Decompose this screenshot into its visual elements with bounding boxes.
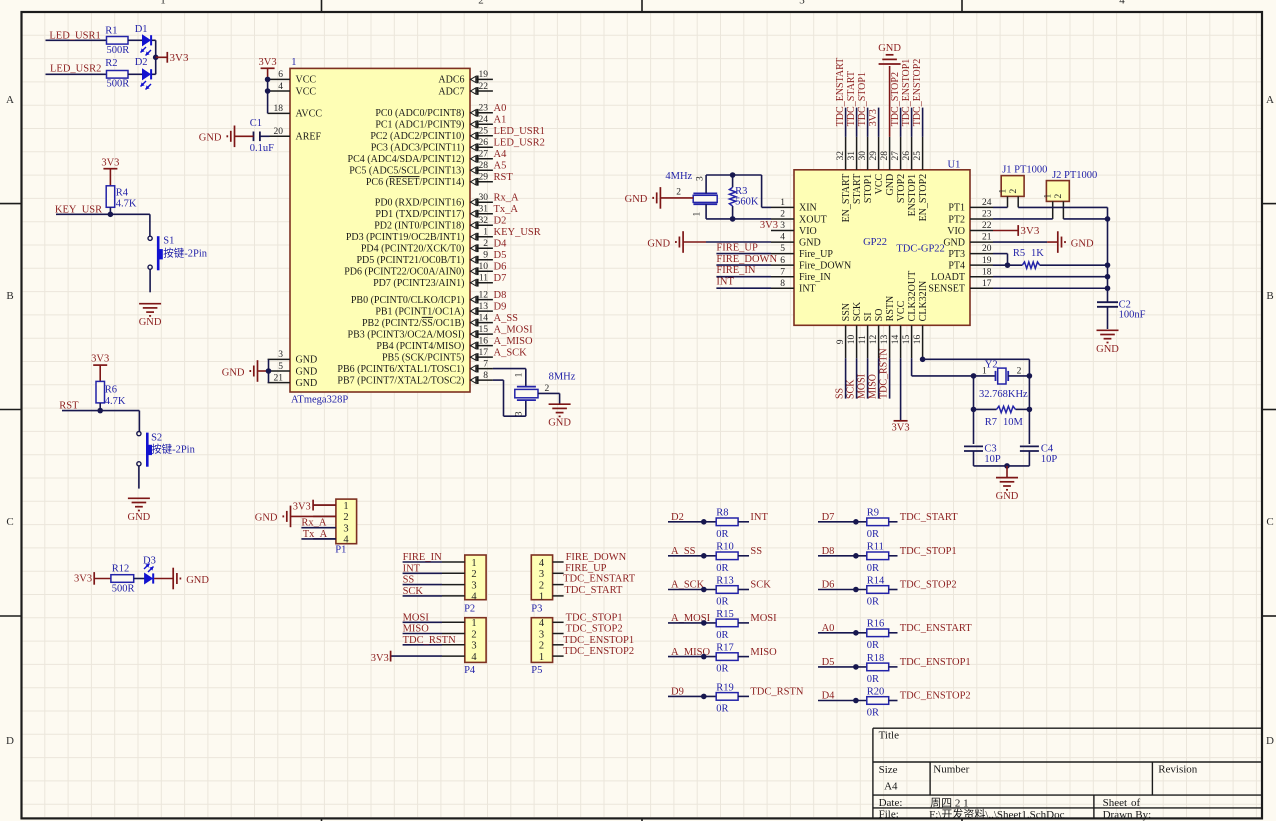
wire XTAL2 [493,379,504,381]
svg-text:3V3: 3V3 [293,502,311,513]
svg-text:14: 14 [891,335,901,345]
svg-text:500R: 500R [112,584,135,595]
svg-text:3: 3 [696,176,706,181]
svg-text:PC0 (ADC0/PCINT8): PC0 (ADC0/PCINT8) [375,108,464,119]
svg-text:PD4 (PCINT20/XCK/T0): PD4 (PCINT20/XCK/T0) [361,244,465,255]
wire Y2 right [1008,375,1029,377]
svg-text:FIRE_UP: FIRE_UP [565,563,607,574]
svg-text:P4: P4 [464,665,476,676]
svg-text:SCK: SCK [750,580,771,591]
ground GND at ATmega [250,360,257,382]
svg-text:GND: GND [625,194,648,205]
wire left bus Y2 [973,376,975,444]
wire CLK32IN [922,358,924,359]
wire LOADT to bus [993,276,1108,278]
svg-text:KEY_USR: KEY_USR [494,227,541,238]
svg-text:4.7K: 4.7K [116,198,137,209]
svg-text:LED_USR1: LED_USR1 [49,30,100,41]
svg-text:PB5 (SCK/PCINT5): PB5 (SCK/PCINT5) [382,352,465,363]
wire Rx_A P1 [301,527,336,529]
svg-text:4: 4 [278,82,283,92]
svg-text:PC1 (ADC1/PCINT9): PC1 (ADC1/PCINT9) [375,120,464,131]
svg-text:0R: 0R [867,529,879,540]
svg-text:Fire_IN: Fire_IN [799,272,831,283]
svg-text:TDC_ENSTART: TDC_ENSTART [835,58,846,127]
power 3V3 at R6 [93,364,107,366]
svg-text:PC6 (RESET/PCINT14): PC6 (RESET/PCINT14) [366,177,465,188]
svg-text:27: 27 [891,151,901,161]
svg-text:Size: Size [879,764,898,776]
wire C2 to GND [1107,307,1109,329]
svg-text:2: 2 [471,629,476,640]
wire GND stem Y2 [1006,466,1008,478]
svg-text:4: 4 [539,558,545,569]
svg-text:2: 2 [483,239,488,249]
svg-text:C1: C1 [250,118,262,129]
wires P4 [403,621,442,623]
svg-text:3V3: 3V3 [259,57,277,68]
svg-text:1: 1 [539,592,544,603]
wire GND bus at ATmega [268,359,270,382]
svg-text:J1 PT1000: J1 PT1000 [1002,165,1047,176]
wire 3V3 to VCC pins [267,68,269,79]
GP22 left pins [771,198,851,295]
svg-text:SS: SS [403,575,415,586]
svg-text:P5: P5 [531,665,542,676]
svg-text:GND: GND [799,237,821,248]
capacitor C3 [964,445,983,447]
svg-text:Revision: Revision [1158,764,1198,776]
svg-text:PC2 (ADC2/PCINT10): PC2 (ADC2/PCINT10) [370,131,464,142]
svg-text:9: 9 [836,339,846,344]
resistor R7 [974,408,997,410]
svg-text:0R: 0R [867,563,879,574]
svg-text:4MHz: 4MHz [665,171,692,182]
svg-text:D4: D4 [494,238,508,249]
svg-text:R18: R18 [867,653,885,664]
svg-text:TDC_ENSTOP2: TDC_ENSTOP2 [912,59,923,127]
power 3V3 at R4 [103,168,117,170]
svg-text:FIRE_IN: FIRE_IN [403,552,443,563]
svg-text:R15: R15 [716,609,734,620]
svg-text:8MHz: 8MHz [549,372,576,383]
svg-text:D8: D8 [494,290,507,301]
svg-text:PD7 (PCINT23/AIN1): PD7 (PCINT23/AIN1) [373,278,464,289]
resistor R6 [96,381,105,403]
GP22 bottom pins [836,271,929,358]
svg-text:0.1uF: 0.1uF [250,143,274,154]
svg-text:3V3: 3V3 [760,220,778,231]
svg-text:GND: GND [943,237,965,248]
ground GND below Y2 [996,478,1018,490]
svg-text:PB0 (PCINT0/CLKO/ICP1): PB0 (PCINT0/CLKO/ICP1) [351,295,465,306]
svg-text:C: C [6,516,13,528]
svg-text:A: A [6,94,14,106]
svg-text:A_MOSI: A_MOSI [494,324,534,335]
svg-text:D6: D6 [494,261,507,272]
wire R2 to D2 [128,73,143,75]
resistor R5 [1022,262,1039,268]
svg-text:7: 7 [780,267,785,277]
svg-text:2: 2 [539,641,544,652]
svg-text:PC4 (ADC4/SDA/PCINT12): PC4 (ADC4/SDA/PCINT12) [348,154,465,165]
svg-text:SCK: SCK [846,379,857,399]
svg-text:VCC: VCC [296,75,317,86]
svg-text:29: 29 [479,173,489,183]
svg-text:PD0 (RXD/PCINT16): PD0 (RXD/PCINT16) [375,198,465,209]
wire GND pin4 [683,241,706,243]
svg-text:Rx_A: Rx_A [494,192,520,203]
svg-text:3: 3 [780,221,785,231]
power 3V3 below GP22 [894,420,908,422]
svg-text:1: 1 [483,228,488,238]
svg-text:Drawn By:: Drawn By: [1103,809,1152,821]
wire J1.2 to bus [1018,206,1107,208]
svg-text:1: 1 [291,57,296,68]
svg-text:RSTN: RSTN [885,296,896,322]
svg-text:Y2: Y2 [985,360,998,371]
svg-text:R20: R20 [867,686,885,697]
wire LED_USR2 [46,73,107,75]
svg-text:PD6 (PCINT22/OC0A/AIN0): PD6 (PCINT22/OC0A/AIN0) [344,267,464,278]
svg-text:ENSTOP1: ENSTOP1 [907,174,918,217]
svg-text:GND: GND [139,317,162,328]
svg-text:31: 31 [847,151,857,161]
svg-text:1: 1 [998,189,1008,194]
junction dot RST [97,408,103,414]
wire S1 to GND [149,269,151,292]
svg-text:J2 PT1000: J2 PT1000 [1052,170,1097,181]
svg-text:6: 6 [278,70,283,80]
wire INT [716,287,771,289]
svg-text:INT: INT [799,284,816,295]
wire KEY_USR [56,213,150,215]
svg-text:TDC_RSTN: TDC_RSTN [403,635,457,646]
svg-text:of: of [1131,797,1141,809]
svg-text:3: 3 [539,569,544,580]
resistor R2 [107,71,129,79]
svg-text:0R: 0R [716,704,728,715]
svg-text:PB7 (PCINT7/XTAL2/TOSC2): PB7 (PCINT7/XTAL2/TOSC2) [337,375,464,386]
svg-text:3: 3 [471,641,476,652]
svg-text:2: 2 [1017,366,1022,376]
svg-text:TDC_STOP2: TDC_STOP2 [900,580,957,591]
svg-text:TDC_ENSTOP1: TDC_ENSTOP1 [901,59,912,127]
svg-text:31: 31 [479,205,489,215]
wire 4MHz bottom [705,204,707,219]
svg-text:4: 4 [471,652,477,663]
ground GND at P1 [283,506,290,528]
svg-text:SS: SS [835,388,846,399]
J2 pins [1044,194,1065,219]
svg-text:GND: GND [199,133,222,144]
svg-text:TDC_START: TDC_START [900,512,959,523]
svg-text:START: START [852,174,863,204]
junction dot PT3 PT4 [1005,262,1011,268]
svg-text:27: 27 [479,150,489,160]
svg-text:3: 3 [539,629,544,640]
wires GP22 SPI nets [846,358,890,398]
svg-text:0R: 0R [716,597,728,608]
svg-text:TDC_ENSTART: TDC_ENSTART [900,623,973,634]
svg-text:2: 2 [478,0,484,7]
svg-text:MISO: MISO [750,647,777,658]
wire XIN net [762,206,771,208]
svg-text:D2: D2 [135,57,148,68]
wire LED_USR1 [46,39,107,41]
svg-text:GND: GND [878,43,901,54]
svg-text:1: 1 [693,212,703,217]
svg-text:3: 3 [343,524,348,535]
crystal 4MHz [665,171,717,216]
svg-text:EN_STOP2: EN_STOP2 [918,174,929,222]
wire D1 to 3V3 rail [152,39,156,41]
svg-text:MOSI: MOSI [750,613,777,624]
svg-text:3V3: 3V3 [371,653,389,664]
svg-text:A4: A4 [884,780,898,792]
svg-text:按键-2Pin: 按键-2Pin [163,246,208,259]
svg-text:2: 2 [539,580,544,591]
svg-text:GND: GND [222,367,245,378]
ground GND at Y1 [549,404,571,416]
svg-text:MOSI: MOSI [403,612,430,623]
power 3V3 at P1 [312,500,314,511]
svg-text:VCC: VCC [896,300,907,321]
svg-text:13: 13 [880,335,890,345]
svg-text:D7: D7 [494,273,507,284]
svg-text:A_SS: A_SS [494,313,519,324]
junction dot KEY_USR [108,212,114,218]
svg-text:3V3: 3V3 [74,574,92,585]
wire 4MHz top [705,175,707,193]
svg-text:Number: Number [933,764,969,776]
svg-text:R5: R5 [1013,248,1025,259]
svg-text:24: 24 [982,198,992,208]
svg-text:MOSI: MOSI [857,374,868,399]
svg-text:LOADT: LOADT [931,272,965,283]
svg-text:A4: A4 [494,149,508,160]
junction dot bus R5 [1105,262,1111,268]
svg-text:TDC_STOP2: TDC_STOP2 [890,72,901,126]
svg-text:F:\开发资料\..\Sheet1.SchDoc: F:\开发资料\..\Sheet1.SchDoc [929,807,1064,821]
svg-text:TDC_ENSTOP2: TDC_ENSTOP2 [563,646,634,657]
svg-text:S1: S1 [163,236,174,247]
svg-text:100nF: 100nF [1119,310,1146,321]
svg-text:1: 1 [539,652,544,663]
svg-text:Fire_UP: Fire_UP [799,249,833,260]
svg-text:SSN: SSN [841,303,852,321]
svg-text:500R: 500R [107,79,130,90]
svg-text:R2: R2 [105,58,117,69]
wire PT4 net [993,264,1022,266]
svg-text:PT3: PT3 [948,249,965,260]
svg-text:23: 23 [982,210,992,220]
svg-text:1: 1 [1044,194,1054,199]
capacitor C1 [253,132,255,142]
svg-text:A1: A1 [494,115,507,126]
svg-text:8: 8 [780,279,785,289]
wire RST [62,410,139,412]
svg-text:周四 2 1: 周四 2 1 [930,797,969,810]
svg-text:MISO: MISO [868,374,879,399]
svg-text:PT4: PT4 [948,260,965,271]
connector P1 body [336,499,357,544]
svg-text:28: 28 [479,161,489,171]
svg-text:3V3: 3V3 [892,422,910,433]
IC ATmega328P body [290,68,470,392]
wire 3V3 P1 [313,504,336,506]
svg-text:R14: R14 [867,575,885,586]
ground GND at D3 [173,568,180,590]
svg-text:PD3 (PCINT19/OC2B/INT1): PD3 (PCINT19/OC2B/INT1) [346,232,465,243]
junction dot bus LOADT [1105,274,1111,280]
svg-text:GND: GND [296,378,318,389]
svg-text:2: 2 [545,384,550,394]
svg-text:R6: R6 [105,384,117,395]
resistor R1 [107,37,129,45]
svg-text:4.7K: 4.7K [105,396,126,407]
svg-text:STOP2: STOP2 [896,174,907,203]
switch S2 [137,432,196,467]
svg-text:GND: GND [647,238,670,249]
svg-text:D9: D9 [494,301,507,312]
wire 3V3 to R6 [99,365,101,381]
svg-text:EN_START: EN_START [841,174,852,223]
power 3V3 at LEDs [156,56,168,58]
svg-text:FIRE_IN: FIRE_IN [716,265,756,276]
svg-text:28: 28 [880,151,890,161]
svg-text:VCC: VCC [296,86,317,97]
svg-text:C4: C4 [1041,443,1054,454]
svg-text:GND: GND [1096,344,1119,355]
connector P5 body [531,618,552,663]
LED D1 [143,35,151,45]
svg-text:AREF: AREF [296,132,322,143]
svg-text:FIRE_DOWN: FIRE_DOWN [716,254,777,265]
svg-text:D: D [1266,735,1274,747]
svg-text:SS: SS [750,546,762,557]
svg-text:GND: GND [996,491,1019,502]
wire FIRE_IN [716,276,771,278]
connector P3 body [531,555,552,600]
svg-text:XOUT: XOUT [799,214,827,225]
svg-text:3V3: 3V3 [1020,225,1039,237]
svg-text:10M: 10M [1003,417,1024,428]
IC U1 TDC-GP22 body [794,170,970,325]
svg-text:0R: 0R [867,674,879,685]
ground GND above GP22 [879,55,901,64]
svg-text:Title: Title [879,730,900,742]
svg-text:1: 1 [514,372,524,377]
wire PT2 to J2 [993,218,1053,220]
svg-text:VCC: VCC [874,173,885,194]
wire C1 to AREF [260,135,270,137]
svg-text:16: 16 [479,336,489,346]
wire FIRE_DOWN [716,264,771,266]
wire CLK32OUT [911,358,913,376]
svg-text:3: 3 [471,580,476,591]
svg-text:R1: R1 [105,26,117,37]
ground GND at S1 [139,304,161,316]
svg-text:1: 1 [982,366,987,376]
svg-text:TDC_ENSTART: TDC_ENSTART [563,573,636,584]
ground GND at GP22 pin21 [1058,231,1065,253]
svg-text:B: B [1266,290,1273,302]
junction dots R3 [730,172,736,178]
svg-text:U1: U1 [948,160,961,171]
svg-text:FIRE_UP: FIRE_UP [716,243,758,254]
svg-text:R17: R17 [716,643,734,654]
P4 pins [442,618,477,663]
svg-text:13: 13 [479,302,489,312]
svg-text:A: A [1266,94,1274,106]
wire R1 to D1 [128,39,143,41]
svg-text:INT: INT [716,277,734,288]
svg-text:10P: 10P [984,454,1001,465]
svg-text:GND: GND [885,174,896,196]
svg-text:PT2: PT2 [948,214,965,225]
svg-text:14: 14 [479,313,489,323]
svg-text:4: 4 [539,618,545,629]
svg-text:R8: R8 [716,508,728,519]
svg-text:STOP1: STOP1 [863,174,874,203]
wire GND pin28 [889,66,891,137]
svg-text:16: 16 [913,335,923,345]
svg-text:30: 30 [479,193,489,203]
wire C3 C4 to GND [973,451,975,466]
svg-text:30: 30 [858,151,868,161]
svg-text:GND: GND [255,513,278,524]
svg-text:TDC_START: TDC_START [846,71,857,126]
svg-text:TDC_ENSTOP1: TDC_ENSTOP1 [900,657,971,668]
svg-text:10: 10 [847,335,857,345]
J1 pins [998,189,1019,208]
svg-text:PC3 (ADC3/PCINT11): PC3 (ADC3/PCINT11) [371,143,465,154]
svg-text:PD1 (TXD/PCINT17): PD1 (TXD/PCINT17) [375,209,464,220]
svg-text:32.768KHz: 32.768KHz [979,389,1028,400]
svg-text:TDC-GP22: TDC-GP22 [896,244,944,255]
svg-text:18: 18 [982,267,992,277]
svg-text:R9: R9 [867,508,879,519]
svg-text:A5: A5 [494,161,507,172]
svg-text:CLK32OUT: CLK32OUT [907,271,918,322]
svg-text:File:: File: [879,809,899,821]
svg-text:ATmega328P: ATmega328P [291,395,348,406]
svg-text:A_MISO: A_MISO [494,336,534,347]
wire Tx_A P1 [301,538,336,540]
svg-text:SO: SO [874,309,885,322]
wire XTAL1 [493,368,526,370]
wire PT3 net [993,253,1008,255]
ground GND at GP22 pin4 [676,231,683,253]
svg-text:20: 20 [982,244,992,254]
svg-text:TDC_ENSTOP2: TDC_ENSTOP2 [900,691,971,702]
svg-text:LED_USR2: LED_USR2 [494,138,545,149]
svg-text:0R: 0R [716,630,728,641]
svg-text:GND: GND [296,355,318,366]
svg-text:AVCC: AVCC [296,109,323,120]
svg-text:VIO: VIO [947,226,965,237]
svg-text:3V3: 3V3 [868,109,879,126]
svg-text:VIO: VIO [799,226,817,237]
svg-text:19: 19 [982,256,992,266]
net labels GP22 top [835,58,923,127]
svg-text:Tx_A: Tx_A [494,204,519,215]
svg-text:2: 2 [676,188,681,198]
resistor R3 [732,175,734,187]
wire PT1 to J1 [993,206,1008,208]
svg-text:TDC_ENSTOP1: TDC_ENSTOP1 [563,635,634,646]
